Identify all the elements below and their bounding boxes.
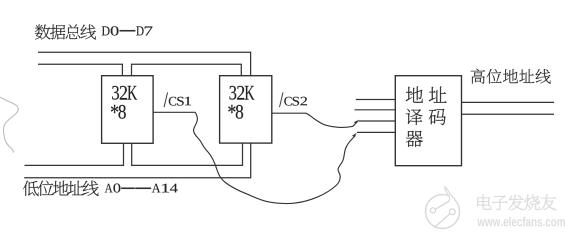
decoder output line 1 (high address) [462, 101, 555, 103]
data bus wire D0-D7 line 1 (upper) [38, 52, 251, 75]
logo trace 2 [434, 214, 450, 228]
decoder text 码 [429, 109, 446, 125]
decoder text 址 [429, 86, 447, 102]
U2 value 32K [229, 86, 254, 100]
decoder text 器 [406, 131, 423, 147]
U1 value *8 [111, 105, 126, 119]
U2 value *8 [228, 105, 243, 119]
RAM chip U2 32K*8 box [220, 76, 272, 143]
/CS1 wire from U1 [153, 111, 196, 113]
label: 低位地址线 (low address lines) [23, 181, 99, 196]
decoder input line 2 [355, 109, 396, 111]
logo pad 2 [449, 209, 455, 215]
logo trace 1 [435, 202, 448, 209]
decoder input line 1 [356, 99, 396, 101]
logo tail sprout [445, 187, 455, 202]
label A0—A14 [105, 184, 178, 193]
arrowhead at decoder input 3 [354, 120, 360, 124]
label: 高位地址线 (high address lines) [471, 69, 551, 84]
watermark logo circle (elecfans) [426, 187, 460, 229]
watermark url www.elecfans.com [477, 217, 565, 227]
RAM chip U1 32K*8 box [102, 76, 154, 144]
data bus wire line 2 middle segment RAM1 to RAM2 [132, 64, 242, 75]
low address bus line 1 left segment to RAM1 [25, 143, 124, 165]
label: 数据总线 (data bus) [35, 24, 96, 39]
low address bus line 1 segment RAM1 to RAM2 [132, 143, 243, 165]
chip-select label /CS2 [279, 93, 307, 107]
low address bus line 2 to RAM2 [24, 143, 251, 177]
decoder input line 3 [359, 120, 396, 122]
decoder text 译 [406, 109, 423, 125]
data bus wire line 2 left segment into RAM1 [38, 64, 122, 75]
logo pad 1 [430, 208, 435, 213]
freehand wire /CS1 to decoder input 4 [194, 112, 356, 203]
/CS2 wire from U2 [272, 112, 306, 114]
label D0—D7 [102, 26, 153, 35]
faint watermark curve, left edge [0, 97, 18, 153]
arrowhead at decoder input 4 [352, 133, 357, 137]
U1 value 32K [112, 86, 137, 100]
decoder output line 2 (high address) [462, 113, 555, 115]
chip-select label /CS1 [164, 93, 191, 107]
decoder input line 4 [357, 131, 395, 133]
address decoder box [395, 76, 461, 166]
watermark text 电子发烧友 [477, 195, 556, 211]
freehand wire /CS2 to decoder input 3 [306, 113, 358, 127]
decoder text 地 [406, 87, 423, 103]
